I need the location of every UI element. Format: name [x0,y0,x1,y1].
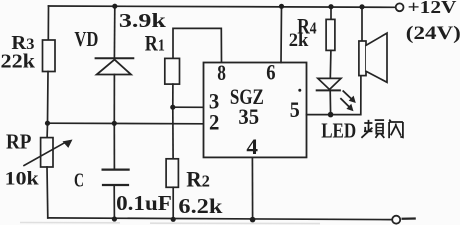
node bottom rail / C [112,216,117,221]
svg-text:6.2k: 6.2k [178,194,222,218]
wire pin4 vertical [251,157,253,219]
char 频 [361,120,384,138]
node top rail / VD [112,4,117,9]
svg-text:8: 8 [217,60,226,85]
faint scan shadow bottom [20,223,320,224]
wire pin2 horizontal [48,122,204,125]
svg-text:VD: VD [74,27,98,51]
terminal +12V circle [396,3,404,11]
svg-text:RP: RP [6,130,32,154]
node VD / pin2 [112,121,117,126]
svg-text:4: 4 [246,134,258,159]
node top rail / pin6 [279,4,284,9]
resistor R2 [166,159,178,188]
svg-text:10k: 10k [5,169,39,190]
svg-text:2k: 2k [289,30,309,51]
wire C bottom lead [113,185,115,219]
speaker cone [366,33,387,82]
LED cathode bar [317,89,340,91]
svg-text:5: 5 [290,97,300,122]
resistor R1 [165,58,180,84]
wire RP bottom lead [46,167,49,218]
svg-text:3.9k: 3.9k [119,10,167,32]
wire pin6 vertical [280,6,283,62]
LED arrow 2 [341,99,354,111]
wire left vertical top (R3 lead) [47,6,49,40]
svg-text:R1: R1 [145,30,165,55]
wire pin3 node down to R2 [172,107,174,159]
svg-text:R2: R2 [186,167,210,192]
wire R4 to LED [329,50,332,78]
wire LED cathode lead [329,90,331,114]
capacitor C bottom plate [103,184,128,186]
svg-text:35: 35 [238,104,259,129]
node left / pin2 [45,121,50,126]
node bottom rail / pin4 [250,217,256,223]
wire VD anode to node [113,75,115,124]
svg-text:+12V: +12V [408,0,457,17]
svg-text:0.1uF: 0.1uF [116,191,172,215]
terminal minus circle [392,216,400,224]
resistor R3 [43,40,56,72]
wire R3 bottom to node [47,72,50,124]
wire bottom rail [48,218,392,220]
node top rail / R4 [328,4,333,9]
char 闪 [389,120,403,139]
wire R4 top lead [330,7,332,20]
wire top rail [49,6,395,7]
capacitor C top plate [103,169,129,171]
wire pin5 horizontal to speaker branch [307,76,361,115]
wire R2 bottom lead [172,187,174,219]
label 频闪 (Chinese: strobe) drawn as strokes [361,120,403,139]
node top rail / speaker [359,4,364,9]
svg-text:C: C [74,169,84,191]
LED triangle [318,78,341,89]
node bottom rail / R2 [171,217,176,222]
LED arrow 1 [343,91,356,103]
dot artifact near pin5 [298,89,301,92]
potentiometer RP [24,138,73,167]
wire R1 top loop [173,28,222,62]
wire speaker top lead [361,7,363,41]
minus dash [403,217,415,219]
IC U1 SGZ35 box [204,63,307,158]
svg-text:2: 2 [209,110,219,135]
svg-text:LED: LED [321,119,356,143]
node R1 / pin3 [170,105,175,110]
svg-text:22k: 22k [1,51,36,73]
svg-text:6: 6 [266,59,275,84]
svg-text:(24V): (24V) [406,23,460,44]
wire VD branch top lead [113,6,115,58]
wire node to cap C [113,123,115,169]
node LED / pin5 [328,112,334,118]
wire R1 bottom to pin3 node [172,84,174,107]
resistor R4 [326,19,335,50]
speaker driver rect [359,41,366,76]
diode VD [96,58,134,74]
wire RP top lead [46,123,48,137]
wire pin3 horizontal [173,106,204,108]
